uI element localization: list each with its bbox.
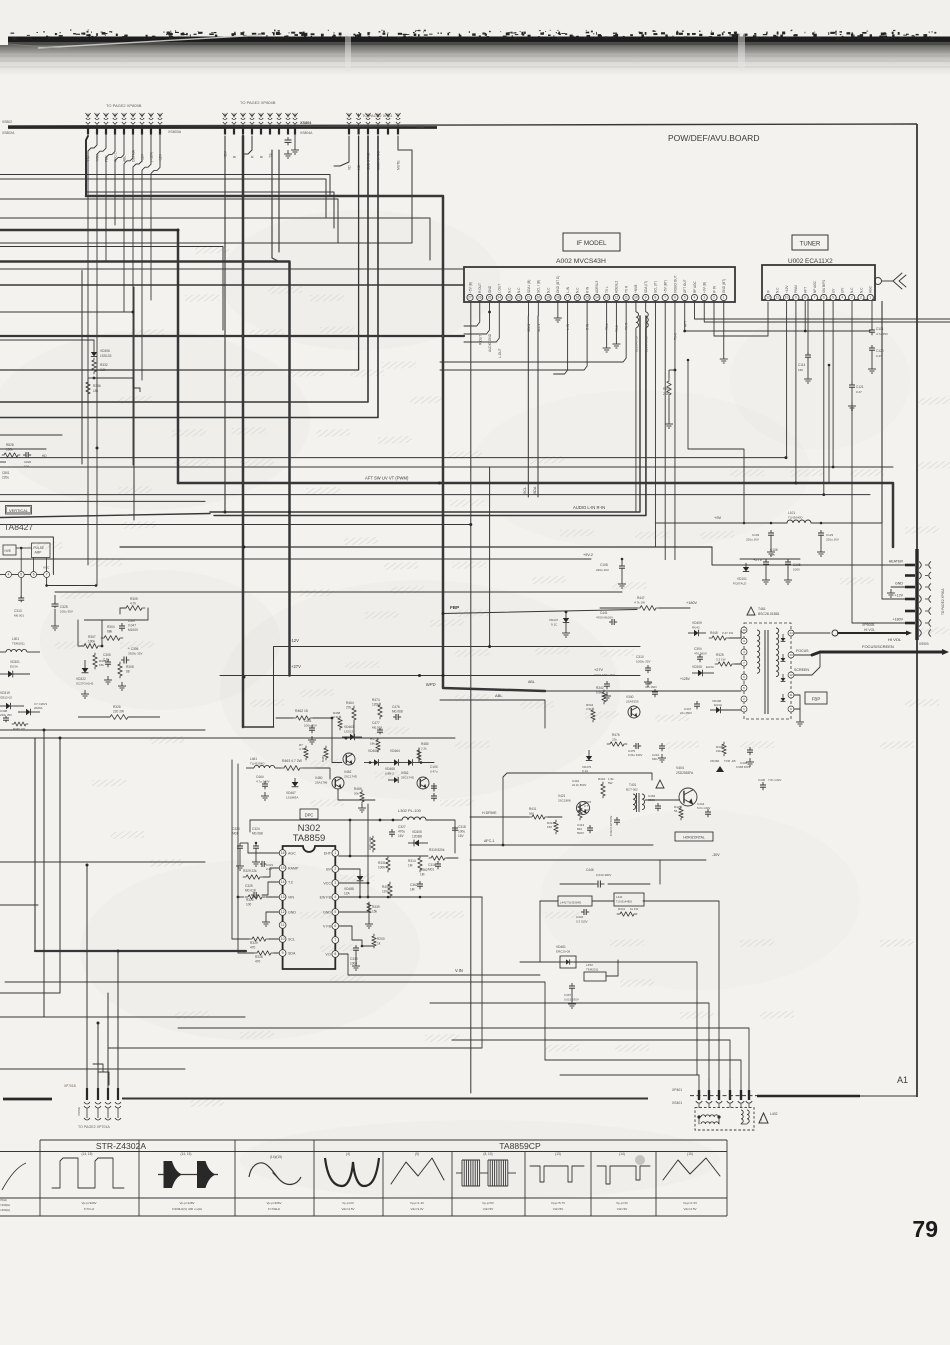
dashed box XS401 xyxy=(695,1108,754,1130)
svg-text:C441: C441 xyxy=(600,611,608,615)
svg-text:VD467: VD467 xyxy=(286,791,296,795)
IF module pin 25 GND xyxy=(486,294,492,300)
IF module pin 8 SCL (IT) xyxy=(652,294,658,300)
svg-text:26: 26 xyxy=(478,296,482,300)
svg-text:14: 14 xyxy=(281,880,285,884)
T461 pin 4 xyxy=(741,649,747,655)
svg-text:VD463: VD463 xyxy=(344,725,354,729)
svg-text:POW/DEF/AVU.BOARD: POW/DEF/AVU.BOARD xyxy=(668,133,759,143)
connector pin XP401-5 xyxy=(740,1090,742,1100)
wire VCC to R469 vertical xyxy=(339,882,368,884)
wires middle cluster xyxy=(332,718,342,763)
svg-text:VD101: VD101 xyxy=(737,577,747,581)
wire WPD to T461 pin 5 xyxy=(545,690,741,692)
svg-text:5: 5 xyxy=(20,573,22,577)
svg-text:20k: 20k xyxy=(354,792,359,796)
svg-text:R474: R474 xyxy=(372,698,380,702)
net label WPD xyxy=(426,682,436,687)
svg-text:R332: R332 xyxy=(100,363,108,367)
connector pin XS804-4 xyxy=(251,114,253,118)
svg-text:TV-V: TV-V xyxy=(674,332,678,340)
svg-text:+5V (B): +5V (B) xyxy=(468,282,472,293)
IF module pin 16 N.C xyxy=(574,294,580,300)
svg-text:XS804A: XS804A xyxy=(300,131,313,135)
svg-text:(5): (5) xyxy=(415,1152,419,1156)
T461 pin 14 xyxy=(788,630,794,636)
svg-text:MUTE: MUTE xyxy=(396,160,400,170)
svg-text:R469: R469 xyxy=(354,787,362,791)
svg-text:6: 6 xyxy=(674,296,676,300)
capacitor above XP701B xyxy=(98,1072,109,1085)
junction dots xyxy=(243,676,246,679)
svg-text:U002 ECA11X2: U002 ECA11X2 xyxy=(788,258,833,265)
svg-text:+12V: +12V xyxy=(785,285,789,293)
svg-text:19: 19 xyxy=(546,296,550,300)
svg-text:V452: V452 xyxy=(344,770,352,774)
IF module pin 23 N.C xyxy=(506,294,512,300)
svg-text:R320: R320 xyxy=(246,898,254,902)
svg-text:8: 8 xyxy=(655,296,657,300)
svg-text:1M: 1M xyxy=(408,864,413,868)
connector pin HEATER xyxy=(905,564,915,567)
connector pin XS01-5 xyxy=(387,114,389,118)
ground under cluster xyxy=(107,676,109,680)
wire SDA1 stub pin 21 xyxy=(528,301,530,316)
wire 540 down xyxy=(539,901,541,962)
T461 secondary winding xyxy=(776,628,779,677)
svg-text:Vp-p=1.4V: Vp-p=1.4V xyxy=(410,1201,424,1205)
svg-text:N.C: N.C xyxy=(546,287,550,293)
flyback transformer T461 dashed outline xyxy=(744,623,791,719)
svg-text:Vdc=5V: Vdc=5V xyxy=(553,1207,564,1211)
svg-text:10: 10 xyxy=(634,296,638,300)
svg-text:EHT: EHT xyxy=(324,852,332,856)
IF module pin 6 VIDEO OUT xyxy=(672,294,678,300)
svg-text:3.9k: 3.9k xyxy=(100,368,106,372)
svg-text:XS802: XS802 xyxy=(2,120,12,124)
wire H DRIVE row xyxy=(470,816,529,818)
svg-text:VD305: VD305 xyxy=(412,830,422,834)
wire stair 962 xyxy=(430,1003,709,1091)
wire vert XS01-1 xyxy=(334,136,349,166)
svg-text:4.7k: 4.7k xyxy=(130,602,136,606)
wire L453 right xyxy=(606,960,618,976)
svg-text:(15): (15) xyxy=(687,1152,693,1156)
tuner pin 3 N.C xyxy=(849,294,855,300)
svg-text:2: 2 xyxy=(334,867,336,871)
wire row heavy 951 xyxy=(35,950,246,952)
svg-text:L441: L441 xyxy=(616,895,623,899)
svg-text:+9V: +9V xyxy=(714,515,722,520)
connector pin GND xyxy=(905,586,915,589)
svg-text:C318: C318 xyxy=(458,825,466,829)
svg-text:VIDEO OUT: VIDEO OUT xyxy=(673,275,677,293)
bottom-left heavy stub xyxy=(3,1098,52,1101)
inductor L814 PL-10 xyxy=(645,301,647,312)
wire pin7 VCC xyxy=(47,578,96,586)
svg-text:150: 150 xyxy=(547,825,552,829)
wire row 730 xyxy=(0,729,205,731)
svg-text:TA8427: TA8427 xyxy=(4,522,33,532)
svg-text:C477: C477 xyxy=(372,721,380,725)
wire L-IN pin 17 xyxy=(554,301,568,374)
IF module pin 2 IF IN xyxy=(711,294,717,300)
IF module pin 26 R OUT xyxy=(477,294,483,300)
waveform cell 0 partial xyxy=(2,1163,26,1190)
svg-text:XS01: XS01 xyxy=(416,125,425,129)
resistor R345 270 xyxy=(12,722,28,726)
T461 pin 7 xyxy=(741,660,747,666)
svg-text:7: 7 xyxy=(814,296,816,300)
svg-text:0.3 315V: 0.3 315V xyxy=(576,920,588,924)
svg-text:-30V: -30V xyxy=(712,853,720,857)
svg-text:4.7u 100V: 4.7u 100V xyxy=(256,780,270,784)
wire row SUB SYNC return xyxy=(0,136,368,402)
wire +12V vertical from L101 xyxy=(881,523,883,599)
svg-text:C820: C820 xyxy=(24,460,32,464)
svg-text:R325: R325 xyxy=(716,653,724,657)
svg-text:3.3 1W: 3.3 1W xyxy=(716,658,726,662)
wire vert XS804-7 xyxy=(278,150,280,252)
svg-text:2: 2 xyxy=(713,296,715,300)
svg-text:HORIZONTAL: HORIZONTAL xyxy=(683,836,705,840)
ground ADESL2 pin 12 xyxy=(615,301,617,340)
IC N302 body xyxy=(283,846,336,969)
T461 pin 5 xyxy=(741,685,747,691)
wire stair 1028 xyxy=(178,1028,749,1091)
svg-text:+12V: +12V xyxy=(289,638,299,643)
svg-text:C121: C121 xyxy=(856,385,864,389)
IF module pin 12 ADESL2 xyxy=(613,294,619,300)
svg-text:100u 35V: 100u 35V xyxy=(60,610,73,614)
wire row DEFMA thick xyxy=(0,230,178,483)
TA8427 pin 5 xyxy=(18,572,24,578)
svg-text:4: 4 xyxy=(694,296,696,300)
svg-text:+9V (B): +9V (B) xyxy=(703,282,707,293)
wire row 1017 xyxy=(0,1016,245,1018)
svg-text:15k: 15k xyxy=(372,910,378,914)
svg-text:10u: 10u xyxy=(770,553,775,557)
svg-text:16: 16 xyxy=(281,851,285,855)
svg-text:XP401: XP401 xyxy=(672,1088,682,1092)
svg-text:TV R: TV R xyxy=(625,322,629,330)
bottom bus line xyxy=(122,1098,648,1100)
N302 pin 5 GND xyxy=(332,909,339,916)
gray gradient below top band xyxy=(0,45,950,75)
N302 pin 16 AGC xyxy=(279,850,286,857)
IF module pin 11 TV R xyxy=(623,294,629,300)
wire L-OUT from pin 24 xyxy=(464,301,499,342)
warning triangle L402 xyxy=(759,1113,768,1123)
N302 pin 12 GND xyxy=(279,909,286,916)
connector pin XS803A-1 xyxy=(87,114,89,118)
resistor R200 1k xyxy=(372,934,376,948)
svg-text:C442: C442 xyxy=(576,915,584,919)
svg-text:5: 5 xyxy=(684,296,686,300)
svg-text:N.C: N.C xyxy=(850,287,854,293)
svg-text:16: 16 xyxy=(576,296,580,300)
label box HORIZONTAL xyxy=(675,832,713,841)
svg-text:IF MODEL: IF MODEL xyxy=(576,240,607,247)
wire T461 pin 11 xyxy=(794,695,800,710)
wire row thick to V452 area xyxy=(0,262,290,676)
wire vert 44 xyxy=(43,730,45,1017)
svg-text:SCL (IT): SCL (IT) xyxy=(654,281,658,293)
svg-text:C362: C362 xyxy=(410,883,418,887)
svg-text:1000: 1000 xyxy=(793,568,800,572)
svg-text:AFT: AFT xyxy=(804,287,808,293)
wire row 865 thin xyxy=(0,861,205,863)
wire vert 35 xyxy=(34,738,36,951)
wire row +9V xyxy=(120,546,712,548)
capacitor C114 160 xyxy=(807,301,809,355)
svg-text:L OUT: L OUT xyxy=(498,284,502,293)
svg-text:AGC: AGC xyxy=(288,852,296,856)
wire HI VOL xyxy=(794,632,830,634)
tuner pin 10 +12V xyxy=(784,294,790,300)
wire IF pin 7 to +9V area xyxy=(688,360,744,523)
svg-text:9: 9 xyxy=(795,296,797,300)
capacitor to ground at XS804 pins xyxy=(287,137,289,140)
svg-text:2SD2553FA: 2SD2553FA xyxy=(676,771,694,775)
svg-text:IF: IF xyxy=(766,290,770,293)
svg-text:R342: R342 xyxy=(596,686,604,690)
svg-text:R448: R448 xyxy=(710,631,718,635)
wire AUDIO GND from pin 25 xyxy=(464,301,490,334)
svg-text:3: 3 xyxy=(334,881,336,885)
wire row 312 xyxy=(0,311,133,313)
svg-text:TV-L: TV-L xyxy=(605,323,609,330)
connector pin XS803A-9 xyxy=(159,114,161,118)
IF module pin 13 TV L xyxy=(604,294,610,300)
svg-text:79: 79 xyxy=(912,1216,938,1242)
svg-text:+27V: +27V xyxy=(594,668,603,672)
wire node R307 xyxy=(78,645,84,647)
svg-text:R307: R307 xyxy=(88,635,96,639)
wire top rail to L302 xyxy=(250,819,402,821)
wire tuner +12V xyxy=(786,301,788,458)
svg-text:PWM: PWM xyxy=(794,285,798,293)
svg-text:10: 10 xyxy=(742,628,746,632)
svg-text:Vdc=5V: Vdc=5V xyxy=(483,1207,494,1211)
tuner U002 body xyxy=(762,265,875,300)
connector pin XS803A-8 xyxy=(150,114,152,118)
svg-text:SCL: SCL xyxy=(288,938,295,942)
svg-text:C305: C305 xyxy=(103,653,111,657)
svg-text:1k: 1k xyxy=(377,942,381,946)
wire V.IN row xyxy=(5,982,545,1060)
svg-text:+NVB: +NVB xyxy=(634,285,638,293)
svg-text:R-OUT: R-OUT xyxy=(478,335,482,345)
tuner pin 9 PWM xyxy=(793,294,799,300)
svg-text:220 2W: 220 2W xyxy=(113,710,124,714)
svg-text:25: 25 xyxy=(488,296,492,300)
svg-text:C103: C103 xyxy=(752,533,760,537)
connector pin XS803A-4 xyxy=(114,114,116,118)
capacitor C467 0.015 630V xyxy=(571,983,573,986)
IF module pin 21 SDA I (B) xyxy=(525,294,531,300)
svg-text:GND: GND xyxy=(288,911,296,915)
resistor R332 3.9k xyxy=(92,358,96,374)
N302 pin 7 xyxy=(332,937,339,944)
scanned page top black edge band xyxy=(8,37,950,43)
svg-text:0.47u: 0.47u xyxy=(430,770,438,774)
svg-text:27: 27 xyxy=(468,296,472,300)
svg-text:TA8859: TA8859 xyxy=(293,833,326,844)
wire stair 1048 WPD xyxy=(108,897,482,1048)
svg-text:C801: C801 xyxy=(2,471,10,475)
svg-text:XS803A: XS803A xyxy=(168,130,182,134)
capacitor C120 0.47 xyxy=(871,345,873,348)
svg-text:V.IN: V.IN xyxy=(455,968,463,973)
svg-text:RAMP: RAMP xyxy=(288,867,299,871)
svg-text:10: 10 xyxy=(281,937,285,941)
IF module pin 22 N.C xyxy=(516,294,522,300)
svg-text:56: 56 xyxy=(674,809,678,813)
connector pin XS804-7 xyxy=(278,114,280,118)
inductor L815 PL-10 xyxy=(635,301,637,312)
svg-text:XS903: XS903 xyxy=(919,642,929,646)
svg-text:C313: C313 xyxy=(14,609,22,613)
svg-text:XP900B: XP900B xyxy=(862,623,875,627)
svg-text:L302 PL-100: L302 PL-100 xyxy=(398,808,422,813)
svg-text:SW B/FS: SW B/FS xyxy=(822,280,826,293)
svg-text:R345 270: R345 270 xyxy=(13,727,26,731)
wire tuner AFT xyxy=(804,301,806,331)
connector pin XS01-3 xyxy=(367,114,369,118)
svg-text:+5V (BT): +5V (BT) xyxy=(664,280,668,293)
svg-text:AFT OUT: AFT OUT xyxy=(683,279,687,293)
svg-text:V421: V421 xyxy=(558,794,566,798)
svg-text:4: 4 xyxy=(8,573,10,577)
wire tuner PWM xyxy=(795,301,797,483)
svg-text:2.2u: 2.2u xyxy=(266,867,272,871)
svg-text:11: 11 xyxy=(789,693,792,697)
block HVE of TA8427 xyxy=(3,545,16,555)
wire thick from XS803A bundle xyxy=(86,136,88,196)
svg-text:M100V: M100V xyxy=(128,628,139,632)
N302 pin 2 BV xyxy=(332,866,339,873)
svg-text:VS/SK: VS/SK xyxy=(77,1107,81,1116)
svg-text:Vp-p=128V: Vp-p=128V xyxy=(179,1201,194,1205)
svg-text:12: 12 xyxy=(615,296,619,300)
wire cluster top xyxy=(77,620,79,646)
connector pin XP401-1 xyxy=(698,1090,700,1100)
svg-text:L-IN: L-IN xyxy=(566,323,570,330)
T461 pin 11 xyxy=(788,692,794,698)
svg-text:R308: R308 xyxy=(126,665,134,669)
IF module pin 27 +5V (B) xyxy=(467,294,473,300)
svg-text:AFT: AFT xyxy=(683,321,687,327)
svg-text:+27V: +27V xyxy=(291,664,301,669)
wire FBP row xyxy=(443,610,637,614)
svg-text:BCT-002: BCT-002 xyxy=(626,788,638,792)
wire row MAIN SYNC return xyxy=(0,136,378,418)
wire stair 725 xyxy=(545,1060,741,1091)
svg-text:L814 PL-10: L814 PL-10 xyxy=(644,336,648,352)
wire RF AGC pin 4 xyxy=(694,301,950,319)
svg-text:C476: C476 xyxy=(392,705,400,709)
svg-text:SDA: SDA xyxy=(533,486,537,494)
wire vert 98 to XP701B xyxy=(97,1023,99,1091)
wire row ABL xyxy=(0,218,430,260)
svg-text:VD460: VD460 xyxy=(710,759,720,763)
svg-text:VCC: VCC xyxy=(323,882,331,886)
svg-text:3300u 35V: 3300u 35V xyxy=(128,652,143,656)
IF module pin 9 SDA (IT) xyxy=(643,294,649,300)
svg-text:T461: T461 xyxy=(758,607,766,611)
svg-text:GND: GND xyxy=(895,582,903,586)
svg-text:R IN: R IN xyxy=(586,323,590,330)
IC TA8427 partial outline xyxy=(0,537,53,575)
wire SCL1 xyxy=(527,316,529,497)
wire row HD return xyxy=(0,136,359,370)
svg-text:L-IN: L-IN xyxy=(566,286,570,293)
svg-text:C123: C123 xyxy=(826,533,834,537)
wire row 501 xyxy=(0,500,205,502)
svg-text:C319: C319 xyxy=(350,957,358,961)
svg-text:(14)/(15): (14)/(15) xyxy=(270,1155,282,1159)
svg-text:100u 35V: 100u 35V xyxy=(304,724,317,728)
capacitor C121 0.47 xyxy=(851,301,853,385)
tuner pin 5 UV xyxy=(830,294,836,300)
svg-text:0.47: 0.47 xyxy=(856,390,862,394)
svg-text:N.C: N.C xyxy=(507,287,511,293)
svg-text:XS401: XS401 xyxy=(672,1101,682,1105)
svg-text:R463 4.7 2W: R463 4.7 2W xyxy=(282,759,303,763)
svg-text:3: 3 xyxy=(703,296,705,300)
wire T401 to V404 base xyxy=(645,799,679,801)
zener VD101 PC87ALD xyxy=(745,563,747,567)
connector pin XP701B-4 xyxy=(117,1088,119,1100)
svg-text:C101: C101 xyxy=(876,327,884,331)
svg-text:R315 820k: R315 820k xyxy=(429,848,445,852)
wire row 559 xyxy=(0,558,591,560)
svg-text:7: 7 xyxy=(46,573,48,577)
connector pin XS804-9 xyxy=(294,114,296,118)
svg-text:22: 22 xyxy=(517,296,521,300)
svg-text:L-OUT: L-OUT xyxy=(498,348,502,358)
svg-text:R351 100k: R351 100k xyxy=(368,836,372,850)
svg-text:4.7u 35V: 4.7u 35V xyxy=(876,332,888,336)
resistor R335 15k xyxy=(93,653,97,669)
svg-text:XS804: XS804 xyxy=(300,121,312,125)
connector pin XP701B-3 xyxy=(107,1088,109,1100)
wire vert 60 xyxy=(59,738,61,993)
svg-text:8: 8 xyxy=(334,952,336,956)
wire EW FB row WPD xyxy=(339,896,482,898)
pin HI VOL out xyxy=(919,630,921,637)
svg-text:NP AGC: NP AGC xyxy=(813,280,817,293)
svg-text:5.6k: 5.6k xyxy=(596,691,602,695)
wire +27V row right xyxy=(740,558,800,560)
T461 primary winding xyxy=(757,630,760,673)
svg-text:17: 17 xyxy=(566,296,570,300)
TA8427 pin 4 xyxy=(6,572,12,578)
svg-text:1k 1W: 1k 1W xyxy=(630,907,638,911)
svg-text:0.01u 630V: 0.01u 630V xyxy=(628,753,642,757)
svg-text:GB12-02: GB12-02 xyxy=(0,696,12,700)
IF module pin 14 ADESL3 xyxy=(594,294,600,300)
svg-text:Vp-p=5.7V: Vp-p=5.7V xyxy=(551,1201,565,1205)
IF module pin 7 +5V (BT) xyxy=(662,294,668,300)
svg-text:TLN3040D: TLN3040D xyxy=(788,516,803,520)
N302 pin 14 T.C xyxy=(279,879,286,886)
svg-text:6: 6 xyxy=(823,296,825,300)
svg-text:(14, 15): (14, 15) xyxy=(181,1152,192,1156)
connector pin XS804-3 xyxy=(242,114,244,118)
svg-text:15: 15 xyxy=(281,866,285,870)
